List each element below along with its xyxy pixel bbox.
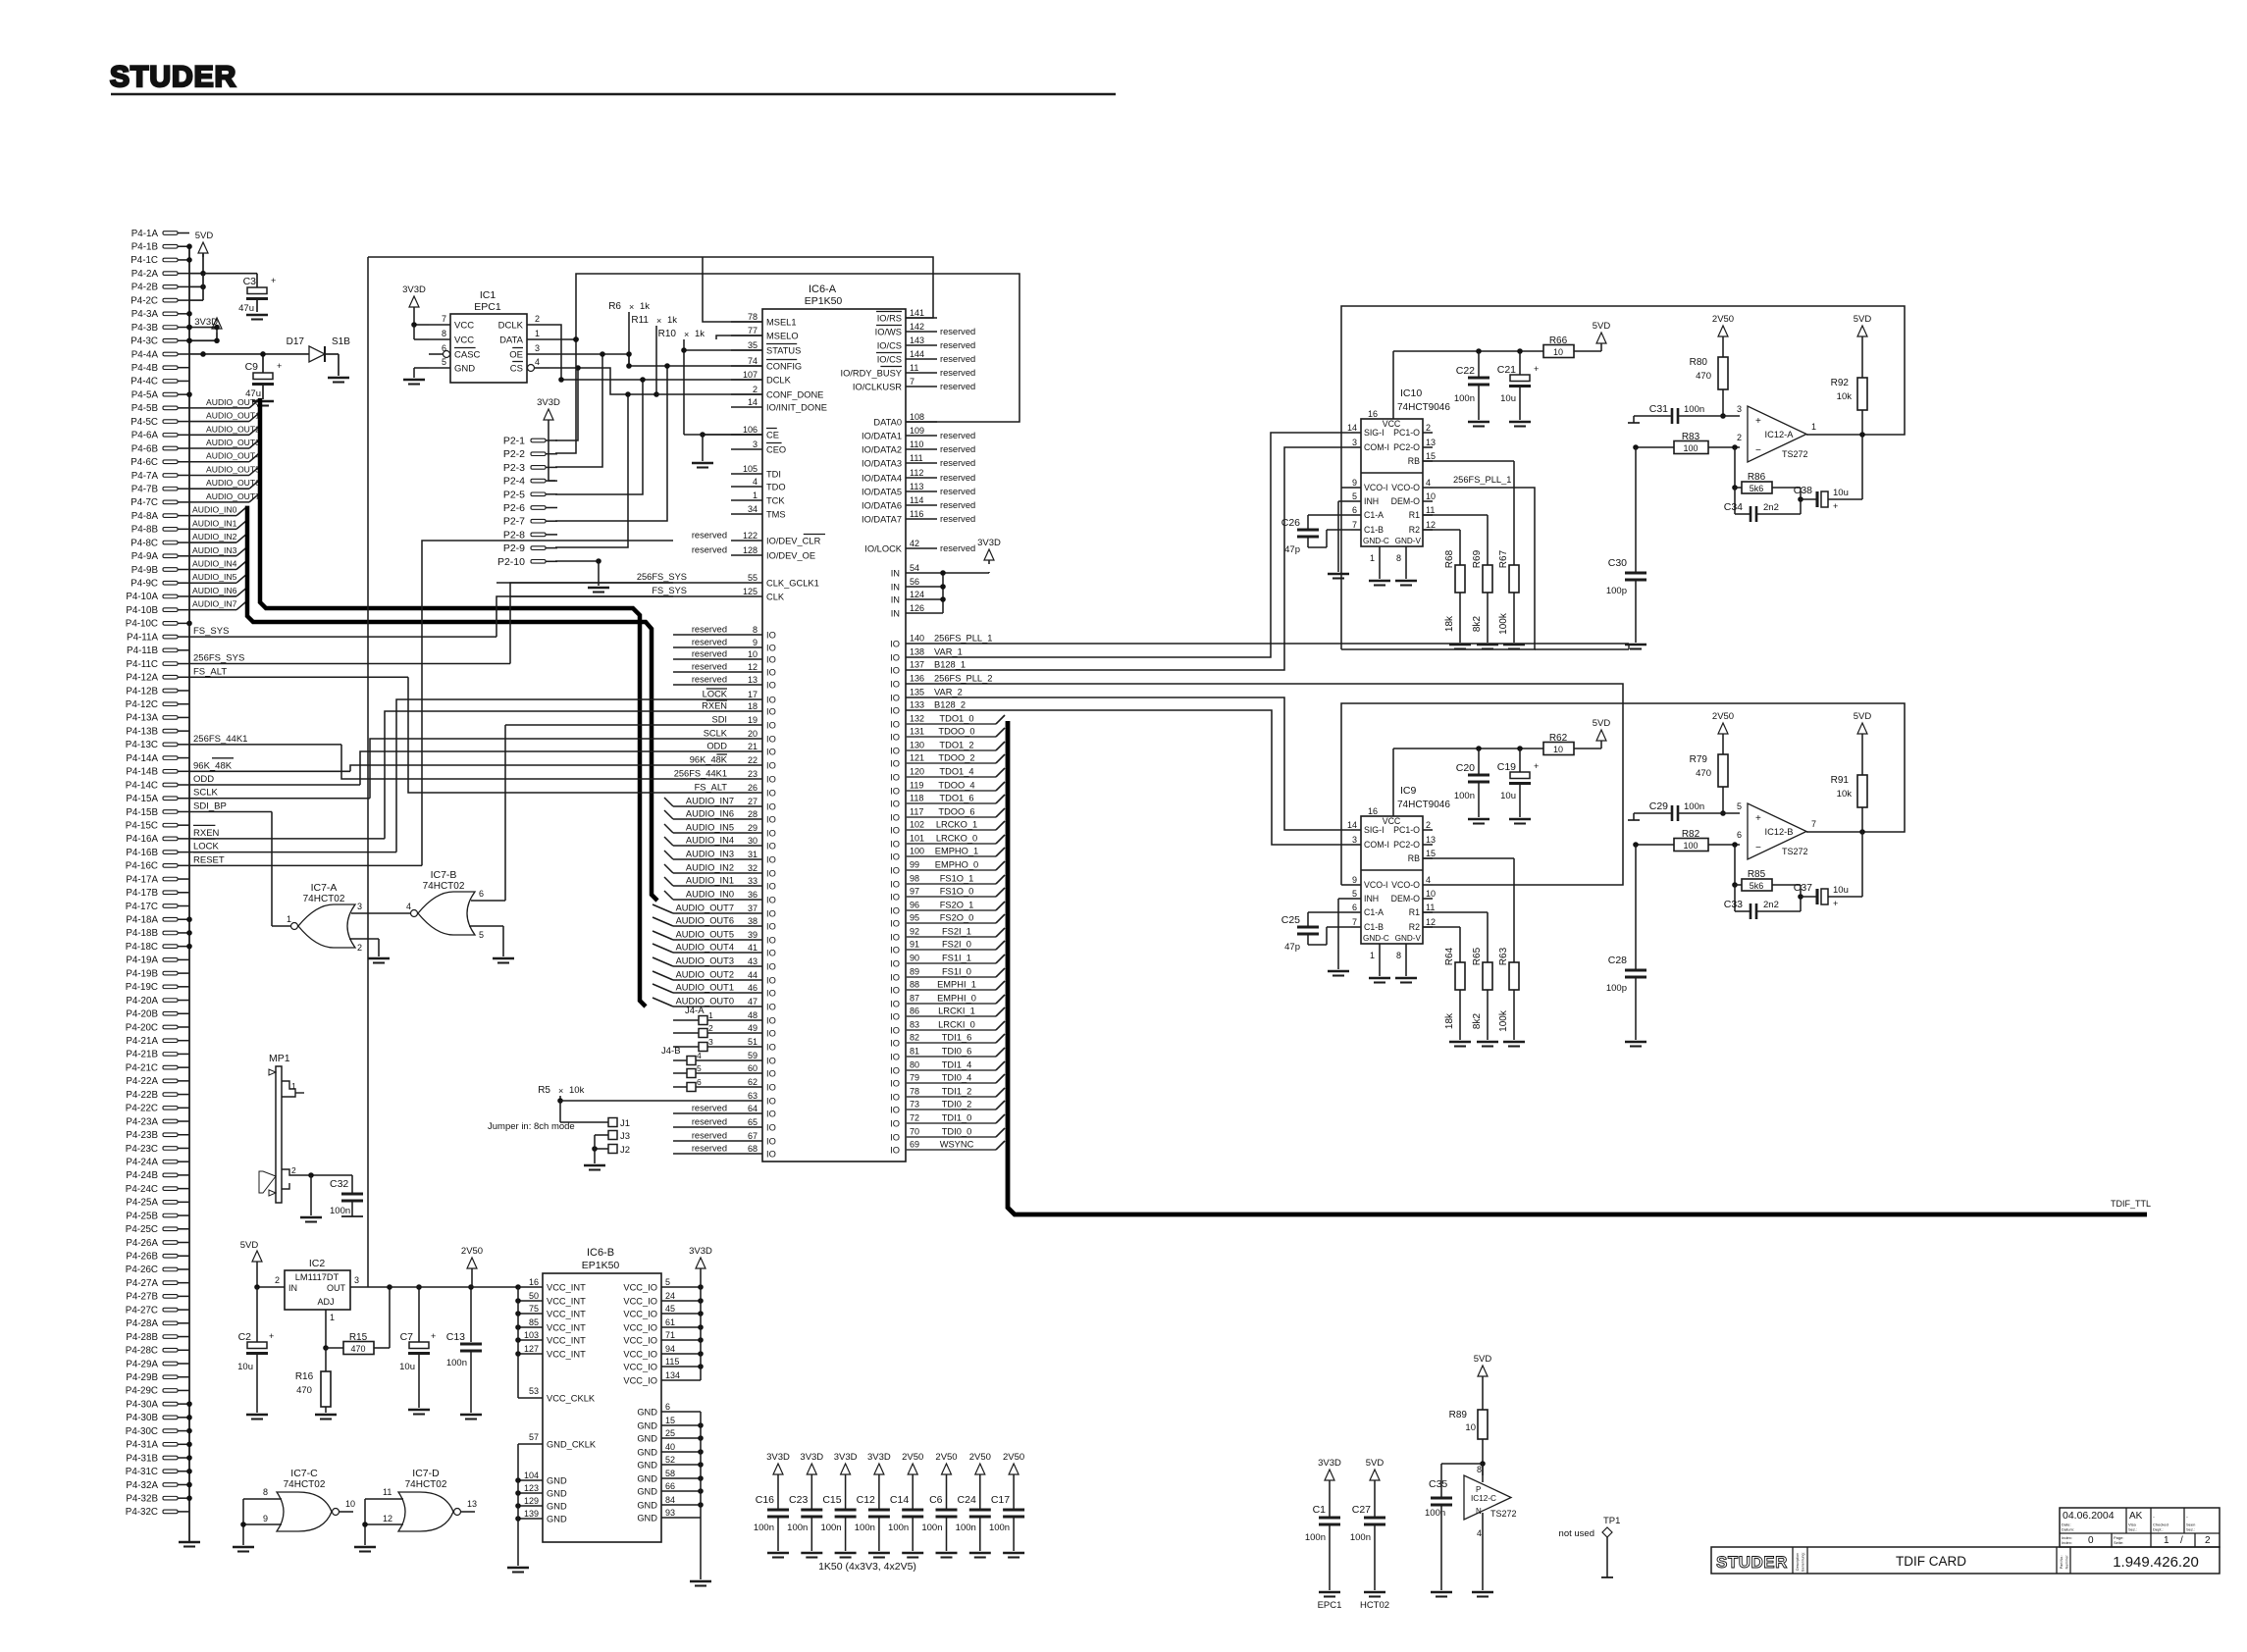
svg-text:IO: IO [766, 735, 776, 745]
svg-text:R6: R6 [608, 301, 621, 312]
svg-text:AK: AK [2129, 1511, 2143, 1522]
svg-text:10: 10 [1465, 1422, 1476, 1433]
svg-text:TDI0_6: TDI0_6 [942, 1047, 972, 1057]
svg-text:1k: 1k [695, 329, 705, 339]
svg-text:50: 50 [529, 1291, 539, 1301]
net 256FS_SYS [189, 653, 510, 664]
svg-text:P4-5B: P4-5B [131, 403, 159, 414]
svg-text:P2-1: P2-1 [503, 436, 525, 447]
svg-text:AUDIO_OUT0: AUDIO_OUT0 [676, 997, 734, 1007]
svg-text:TDO1_6: TDO1_6 [939, 794, 973, 803]
svg-text:GND: GND [547, 1476, 567, 1486]
svg-text:48: 48 [748, 1010, 758, 1020]
capacitor C26 47p (upper PLL) [1281, 515, 1351, 555]
svg-text:Description: Description [1796, 1553, 1800, 1571]
svg-text:IO: IO [890, 800, 900, 809]
svg-text:5: 5 [479, 930, 484, 940]
svg-text:88: 88 [910, 980, 919, 990]
svg-text:VCC_INT: VCC_INT [547, 1350, 586, 1360]
svg-text:31: 31 [748, 850, 758, 859]
svg-text:4: 4 [697, 1051, 702, 1060]
svg-text:C1-A: C1-A [1364, 510, 1384, 520]
svg-text:C1-B: C1-B [1364, 922, 1384, 932]
svg-text:P2-3: P2-3 [503, 462, 525, 474]
wire VCO-I stub (upper PLL) [1341, 487, 1351, 489]
IC ground pins (lower PLL) [1369, 944, 1417, 983]
svg-text:SCLK: SCLK [704, 729, 728, 739]
svg-text:C22: C22 [1456, 365, 1475, 377]
svg-text:110: 110 [910, 439, 923, 449]
svg-text:TS272: TS272 [1782, 449, 1808, 459]
svg-text:DATA0: DATA0 [873, 418, 902, 428]
svg-text:0: 0 [2088, 1535, 2094, 1546]
svg-text:C29: C29 [1649, 800, 1668, 812]
text jumper note [488, 1121, 575, 1132]
svg-text:TDI1_4: TDI1_4 [942, 1060, 972, 1070]
svg-text:P4-7A: P4-7A [131, 471, 159, 482]
jumper J2 [584, 1135, 630, 1170]
svg-text:reserved: reserved [692, 638, 727, 647]
IC pins (lower PLL) [1347, 749, 1436, 943]
svg-text:2V50: 2V50 [1003, 1452, 1024, 1463]
svg-text:136: 136 [910, 674, 924, 684]
svg-text:P4-18A: P4-18A [126, 915, 158, 926]
svg-text:10: 10 [1426, 889, 1436, 899]
IC6-A left control pins [731, 312, 827, 602]
svg-text:C32: C32 [330, 1178, 348, 1190]
svg-text:5VD: 5VD [1474, 1354, 1492, 1365]
svg-text:3V3D: 3V3D [689, 1246, 712, 1257]
svg-text:10k: 10k [1837, 789, 1853, 800]
svg-text:C6: C6 [929, 1494, 943, 1506]
svg-text:59: 59 [748, 1051, 758, 1060]
svg-text:Datum:: Datum: [2062, 1527, 2074, 1532]
svg-text:13: 13 [1426, 438, 1436, 447]
svg-text:IC2: IC2 [309, 1258, 326, 1269]
svg-text:8: 8 [263, 1487, 268, 1497]
svg-text:AUDIO_IN4: AUDIO_IN4 [686, 836, 734, 846]
testpoint TP1 [1559, 1516, 1621, 1577]
svg-text:6: 6 [442, 343, 446, 353]
svg-text:SIG-I: SIG-I [1364, 825, 1385, 835]
wire VCC net (lower PLL) [1393, 746, 1543, 751]
net 256FS_PLL_2 wire [906, 684, 1623, 885]
svg-text:P4-10B: P4-10B [126, 605, 158, 616]
svg-text:4: 4 [753, 477, 758, 487]
svg-text:D17: D17 [287, 336, 305, 347]
svg-text:R62: R62 [1549, 733, 1568, 744]
svg-text:89: 89 [910, 967, 919, 977]
wire top loop pin141 [368, 257, 933, 318]
wire VCC net (upper PLL) [1393, 348, 1543, 354]
net SCLK [189, 788, 370, 799]
svg-text:AUDIO_IN5: AUDIO_IN5 [192, 572, 237, 582]
svg-text:18k: 18k [1444, 615, 1455, 632]
svg-text:FS2O_0: FS2O_0 [940, 913, 974, 923]
resistor R5 10k [538, 1085, 673, 1104]
svg-text:256FS_44K1: 256FS_44K1 [193, 734, 247, 745]
svg-text:MSELO: MSELO [766, 332, 799, 341]
connector P4 pins P4-1A..P4-32C [126, 229, 189, 1518]
svg-text:AUDIO_OUT4: AUDIO_OUT4 [206, 451, 260, 461]
svg-text:PC1-O: PC1-O [1393, 428, 1420, 438]
svg-text:R66: R66 [1549, 336, 1568, 346]
svg-text:IO: IO [890, 840, 900, 850]
svg-text:R11: R11 [631, 315, 649, 326]
svg-text:5: 5 [697, 1063, 702, 1073]
power 3V3D (IC1) [402, 284, 429, 339]
svg-text:P4-9B: P4-9B [131, 565, 159, 576]
svg-text:100n: 100n [446, 1358, 467, 1368]
svg-text:VCO-I: VCO-I [1364, 880, 1387, 890]
svg-text:P4-4B: P4-4B [131, 363, 159, 374]
svg-text:P4-13C: P4-13C [126, 740, 158, 750]
gate IC7-B 74HCT02 [406, 869, 514, 963]
svg-text:129: 129 [524, 1496, 539, 1506]
svg-text:C14: C14 [890, 1494, 909, 1506]
svg-text:131: 131 [910, 727, 924, 737]
svg-text:100n: 100n [855, 1523, 875, 1533]
svg-text:IO: IO [766, 989, 776, 999]
svg-text:OE: OE [509, 350, 523, 361]
svg-text:100n: 100n [787, 1523, 808, 1533]
capacitor C27 100n [1350, 1458, 1389, 1611]
svg-text:109: 109 [910, 426, 924, 436]
svg-text:+: + [1833, 501, 1838, 511]
svg-text:P4-13A: P4-13A [126, 713, 158, 724]
svg-text:10: 10 [345, 1499, 355, 1509]
svg-text:P4-3B: P4-3B [131, 323, 159, 334]
svg-text:99: 99 [910, 860, 919, 870]
svg-text:23: 23 [748, 769, 758, 779]
svg-text:IN: IN [891, 569, 900, 579]
svg-text:P4-29B: P4-29B [126, 1372, 158, 1383]
svg-text:IC12-C: IC12-C [1471, 1494, 1496, 1503]
svg-text:10u: 10u [399, 1362, 415, 1372]
svg-text:C2: C2 [238, 1331, 252, 1343]
svg-text:11: 11 [1426, 505, 1435, 515]
capacitor C6 100n [921, 1452, 957, 1558]
svg-text:C25: C25 [1281, 914, 1300, 926]
svg-text:+: + [1534, 761, 1539, 771]
svg-text:R79: R79 [1690, 754, 1708, 765]
svg-text:P4-11A: P4-11A [127, 632, 158, 643]
svg-text:VCC_INT: VCC_INT [547, 1323, 586, 1333]
svg-text:P4-30B: P4-30B [126, 1413, 158, 1423]
svg-text:10k: 10k [569, 1085, 585, 1096]
svg-text:63: 63 [748, 1091, 758, 1101]
svg-text:100: 100 [1683, 443, 1698, 453]
power 3V3D (P2) [537, 397, 560, 481]
svg-text:82: 82 [910, 1033, 919, 1043]
svg-text:1: 1 [1370, 553, 1375, 563]
svg-text:IO: IO [766, 775, 776, 785]
svg-text:IO: IO [766, 855, 776, 865]
svg-text:67: 67 [748, 1131, 758, 1141]
capacitor C38 10u (upper PLL) [1794, 435, 1862, 511]
svg-text:P4-21B: P4-21B [126, 1050, 158, 1060]
svg-text:100k: 100k [1498, 1009, 1509, 1032]
svg-text:P4-18C: P4-18C [126, 942, 158, 953]
svg-text:P4-7C: P4-7C [131, 497, 158, 508]
resistor R86 5k6 (upper PLL) [1732, 447, 1803, 502]
svg-text:AUDIO_IN0: AUDIO_IN0 [192, 505, 237, 515]
svg-text:B128_2: B128_2 [934, 700, 966, 710]
svg-text:Part No.:: Part No.: [2060, 1555, 2064, 1569]
svg-text:R91: R91 [1831, 775, 1850, 786]
svg-text:29: 29 [748, 823, 758, 833]
svg-text:COM-I: COM-I [1364, 442, 1389, 452]
svg-text:IO: IO [890, 919, 900, 929]
svg-text:reserved: reserved [940, 473, 975, 483]
svg-text:30: 30 [748, 836, 758, 846]
svg-text:P4-23A: P4-23A [126, 1116, 158, 1127]
IC ground pins (upper PLL) [1369, 546, 1417, 586]
svg-text:VCC: VCC [454, 321, 474, 332]
svg-text:J2: J2 [620, 1145, 630, 1156]
switch S1B [325, 336, 350, 383]
svg-text:8: 8 [1477, 1465, 1482, 1474]
svg-text:C24: C24 [958, 1494, 976, 1506]
svg-text:470: 470 [296, 1385, 312, 1396]
svg-text:5VD: 5VD [1854, 314, 1872, 325]
P2 wire mesh [549, 336, 670, 592]
diode D17 [287, 336, 325, 362]
svg-text:P4-19B: P4-19B [126, 968, 158, 979]
capacitor C13 [446, 1284, 482, 1419]
svg-text:+: + [1534, 364, 1539, 374]
svg-text:TDOO_0: TDOO_0 [938, 727, 974, 737]
svg-text:DEM-O: DEM-O [1391, 894, 1420, 903]
svg-text:TMS: TMS [766, 510, 786, 520]
svg-text:×: × [629, 302, 634, 312]
capacitor C12 100n [855, 1452, 891, 1558]
svg-text:21: 21 [748, 742, 758, 751]
svg-text:P4-6C: P4-6C [131, 457, 158, 468]
svg-text:STUDER: STUDER [1716, 1553, 1788, 1572]
svg-text:1: 1 [2164, 1535, 2169, 1546]
svg-text:2V50: 2V50 [1712, 314, 1734, 325]
svg-text:reserved: reserved [940, 354, 975, 364]
P4 bus junctions [186, 243, 192, 1501]
svg-text:GND: GND [637, 1448, 657, 1458]
svg-text:TDO1_2: TDO1_2 [939, 741, 973, 750]
svg-text:66: 66 [665, 1481, 675, 1491]
svg-text:1: 1 [330, 1313, 335, 1322]
net 96K_48K [189, 758, 350, 772]
svg-text:5: 5 [1352, 889, 1357, 899]
svg-text:P4-7B: P4-7B [131, 484, 159, 494]
svg-text:5VD: 5VD [1366, 1458, 1385, 1469]
svg-text:P4-25C: P4-25C [126, 1224, 158, 1235]
ground (MP1) [300, 1175, 322, 1222]
svg-text:2V50: 2V50 [935, 1452, 957, 1463]
svg-text:80: 80 [910, 1060, 919, 1070]
svg-text:AUDIO_OUT2: AUDIO_OUT2 [206, 424, 260, 434]
svg-text:LOCK: LOCK [703, 690, 728, 699]
svg-text:R64: R64 [1444, 947, 1455, 965]
svg-text:WSYNC: WSYNC [940, 1140, 974, 1150]
svg-text:LRCKO_0: LRCKO_0 [936, 834, 977, 844]
svg-text:IO: IO [890, 1039, 900, 1049]
svg-text:IO: IO [890, 747, 900, 756]
text 1K50 note [818, 1561, 916, 1573]
svg-text:P4-20C: P4-20C [126, 1022, 158, 1033]
svg-text:DCLK: DCLK [498, 321, 524, 332]
svg-text:IO: IO [890, 1053, 900, 1062]
jumper J4-B [661, 1046, 702, 1092]
svg-text:36: 36 [748, 890, 758, 900]
capacitor C34 2n2 (upper PLL) [1724, 488, 1801, 522]
svg-text:P4-13B: P4-13B [126, 726, 158, 737]
svg-text:AUDIO_IN5: AUDIO_IN5 [686, 823, 734, 833]
svg-text:EMPHI_1: EMPHI_1 [937, 980, 976, 990]
resistor R63 100k (lower PLL) [1423, 858, 1525, 1047]
svg-text:19: 19 [748, 715, 758, 725]
IC6-A IN pins [891, 563, 943, 619]
svg-text:GND: GND [637, 1487, 657, 1497]
svg-text:P: P [1476, 1485, 1481, 1494]
svg-text:×: × [656, 316, 661, 326]
svg-text:P4-9C: P4-9C [131, 579, 158, 590]
svg-text:IO: IO [766, 909, 776, 919]
svg-text:AUDIO_IN6: AUDIO_IN6 [192, 586, 237, 595]
svg-text:P4-4A: P4-4A [131, 349, 159, 360]
svg-text:72: 72 [910, 1113, 919, 1123]
svg-text:reserved: reserved [940, 500, 975, 510]
svg-text:3V3D: 3V3D [977, 538, 1001, 548]
capacitor C15 100n [820, 1452, 857, 1558]
svg-text:86: 86 [910, 1007, 919, 1016]
svg-text:FS_SYS: FS_SYS [193, 626, 229, 637]
svg-text:GND: GND [547, 1502, 567, 1512]
svg-text:IO: IO [890, 1146, 900, 1156]
svg-text:34: 34 [748, 504, 758, 514]
title block frame upper [2060, 1508, 2220, 1547]
svg-text:3: 3 [535, 343, 540, 353]
svg-text:VCC_IO: VCC_IO [623, 1310, 657, 1319]
svg-text:IC7-D: IC7-D [412, 1468, 440, 1479]
svg-text:103: 103 [524, 1330, 539, 1340]
net label 256FS_PLL_1 (upper PLL) [1453, 475, 1511, 485]
svg-text:P4-16C: P4-16C [126, 861, 158, 872]
svg-text:AUDIO_IN3: AUDIO_IN3 [192, 545, 237, 555]
svg-text:IO: IO [766, 815, 776, 825]
svg-text:IO/CS: IO/CS [877, 341, 902, 351]
svg-text:P4-24B: P4-24B [126, 1170, 158, 1181]
svg-text:108: 108 [910, 412, 924, 422]
svg-text:IN: IN [288, 1283, 297, 1293]
svg-text:78: 78 [910, 1087, 919, 1097]
svg-text:9: 9 [1352, 478, 1357, 488]
svg-text:70: 70 [910, 1127, 919, 1137]
svg-text:IO: IO [766, 1043, 776, 1053]
svg-text:IO: IO [766, 668, 776, 678]
svg-text:reserved: reserved [692, 1104, 727, 1113]
svg-text:P2-2: P2-2 [503, 448, 525, 460]
svg-text:P2-4: P2-4 [503, 476, 525, 488]
svg-text:AUDIO_OUT5: AUDIO_OUT5 [676, 930, 734, 940]
svg-text:IO: IO [890, 906, 900, 916]
svg-text:reserved: reserved [692, 662, 727, 672]
net RXEN [189, 825, 385, 839]
svg-text:32: 32 [748, 863, 758, 873]
svg-text:reserved: reserved [940, 458, 975, 468]
svg-text:11: 11 [910, 363, 918, 373]
svg-text:100n: 100n [1454, 393, 1475, 404]
svg-text:+: + [1755, 416, 1761, 427]
svg-text:R80: R80 [1690, 357, 1708, 368]
svg-text:3: 3 [1352, 438, 1357, 447]
svg-text:7: 7 [910, 377, 914, 387]
svg-text:GND: GND [547, 1515, 567, 1524]
svg-text:IO/DATA7: IO/DATA7 [862, 515, 902, 525]
svg-text:TDOO_4: TDOO_4 [938, 781, 974, 791]
wire STATUS net [681, 347, 762, 353]
net VAR_2 wire [906, 697, 1351, 830]
capacitor C32 [330, 1175, 363, 1216]
svg-text:IO: IO [890, 880, 900, 890]
svg-text:SDI_BP: SDI_BP [193, 800, 227, 811]
wire PLL feedback loop (lower PLL) [1341, 703, 1905, 885]
IC IC6-B EP1K50 box [543, 1247, 661, 1542]
svg-text:GND: GND [454, 364, 475, 375]
svg-text:IO/DATA5: IO/DATA5 [862, 488, 902, 497]
svg-text:106: 106 [743, 425, 758, 435]
svg-text:12: 12 [1426, 917, 1436, 927]
svg-text:3: 3 [1737, 404, 1742, 414]
IC6-A reserved labels left [692, 531, 727, 555]
svg-text:C9: C9 [245, 361, 259, 373]
svg-text:133: 133 [910, 700, 924, 710]
svg-text:74HCT02: 74HCT02 [405, 1479, 447, 1490]
svg-text:IN: IN [891, 595, 900, 605]
capacitor C25 47p (lower PLL) [1281, 912, 1351, 953]
svg-text:IO/RDY_BUSY: IO/RDY_BUSY [840, 369, 902, 379]
thick bus AUDIO_OUT (P4 side) [260, 398, 646, 1007]
svg-text:FS2I_1: FS2I_1 [942, 927, 971, 937]
svg-text:reserved: reserved [940, 543, 975, 553]
svg-text:R5: R5 [538, 1085, 550, 1096]
svg-text:P4-29A: P4-29A [126, 1359, 158, 1369]
svg-text:P4-21C: P4-21C [126, 1062, 158, 1073]
svg-text:+: + [271, 276, 276, 285]
svg-text:13: 13 [748, 675, 758, 685]
svg-text:P4-23B: P4-23B [126, 1130, 158, 1141]
svg-text:IO: IO [890, 1026, 900, 1036]
svg-text:C38: C38 [1794, 485, 1812, 496]
svg-text:IO: IO [890, 1133, 900, 1143]
wire MP1 pin2 [297, 1172, 352, 1178]
svg-text:53: 53 [529, 1386, 539, 1396]
svg-text:P2-8: P2-8 [503, 529, 525, 541]
svg-text:4: 4 [535, 357, 540, 367]
svg-text:5VD: 5VD [1593, 321, 1611, 332]
svg-text:SDI: SDI [712, 715, 728, 725]
svg-text:22: 22 [748, 755, 758, 765]
svg-text:116: 116 [910, 509, 923, 519]
svg-text:AUDIO_OUT6: AUDIO_OUT6 [676, 916, 734, 926]
capacitor C17 100n [989, 1452, 1024, 1558]
svg-text:20: 20 [748, 729, 758, 739]
svg-text:R85: R85 [1748, 869, 1766, 880]
svg-text:12: 12 [1426, 520, 1436, 530]
svg-text:256FS_SYS: 256FS_SYS [637, 572, 687, 582]
title block date [2062, 1510, 2195, 1532]
svg-text:IO: IO [766, 655, 776, 665]
svg-text:Dept.:: Dept.: [2153, 1527, 2164, 1532]
svg-text:IO: IO [890, 787, 900, 797]
